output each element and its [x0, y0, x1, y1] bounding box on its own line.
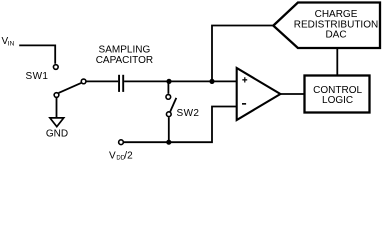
svg-text:SW2: SW2 — [177, 108, 200, 119]
svg-text:DAC: DAC — [325, 29, 346, 40]
svg-text:V: V — [109, 150, 116, 161]
svg-text:SAMPLING: SAMPLING — [99, 45, 151, 56]
svg-text:IN: IN — [8, 41, 15, 48]
svg-text:/2: /2 — [124, 150, 133, 161]
svg-text:LOGIC: LOGIC — [322, 95, 353, 106]
svg-text:SW1: SW1 — [26, 71, 49, 82]
svg-text:CAPACITOR: CAPACITOR — [96, 55, 153, 66]
svg-text:GND: GND — [46, 128, 68, 139]
